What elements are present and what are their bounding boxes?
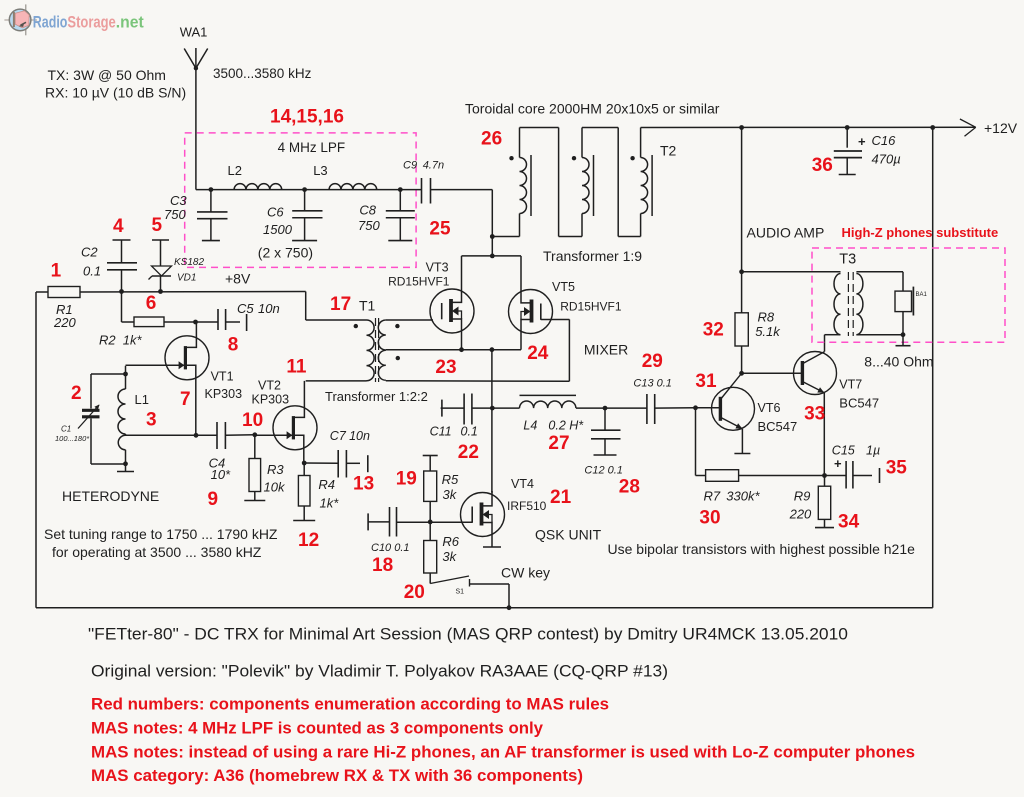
svg-text:5.1k: 5.1k xyxy=(755,324,781,339)
svg-text:+: + xyxy=(834,456,842,471)
svg-text:TX: 3W @ 50 Ohm: TX: 3W @ 50 Ohm xyxy=(48,67,166,83)
svg-text:R6: R6 xyxy=(442,534,459,549)
svg-text:C16: C16 xyxy=(872,133,897,148)
svg-text:WA1: WA1 xyxy=(180,25,208,40)
svg-text:Radio: Radio xyxy=(33,12,68,31)
svg-text:6: 6 xyxy=(146,293,157,314)
svg-text:330k*: 330k* xyxy=(726,489,760,504)
svg-text:IRF510: IRF510 xyxy=(507,499,547,513)
svg-text:12: 12 xyxy=(298,530,319,551)
svg-text:L3: L3 xyxy=(313,163,327,178)
svg-text:VT5: VT5 xyxy=(552,280,575,294)
svg-text:17: 17 xyxy=(330,294,351,315)
svg-text:R2: R2 xyxy=(99,333,116,348)
svg-text:Original version: "Polevik" by: Original version: "Polevik" by Vladimir … xyxy=(91,662,668,681)
svg-text:Transformer 1:9: Transformer 1:9 xyxy=(543,248,642,264)
svg-text:C13 0.1: C13 0.1 xyxy=(633,378,672,390)
svg-text:VT1: VT1 xyxy=(211,370,234,384)
svg-text:1: 1 xyxy=(51,261,62,282)
svg-text:VT4: VT4 xyxy=(511,477,534,491)
svg-text:1k*: 1k* xyxy=(320,496,340,511)
svg-text:R8: R8 xyxy=(758,310,775,325)
svg-text:VT2: VT2 xyxy=(258,379,281,393)
svg-text:R3: R3 xyxy=(267,462,284,477)
svg-text:21: 21 xyxy=(550,487,572,508)
svg-text:29: 29 xyxy=(642,351,663,372)
svg-text:2: 2 xyxy=(71,383,82,404)
svg-text:C9: C9 xyxy=(403,160,417,172)
svg-text:R4: R4 xyxy=(318,477,335,492)
svg-text:C15: C15 xyxy=(832,444,855,458)
svg-text:+12V: +12V xyxy=(984,120,1018,136)
svg-text:220: 220 xyxy=(789,507,812,522)
svg-text:10n: 10n xyxy=(258,301,280,316)
svg-text:Red numbers: components enumer: Red numbers: components enumeration acco… xyxy=(91,695,609,714)
svg-text:MAS category: A36 (homebrew RX: MAS category: A36 (homebrew RX & TX with… xyxy=(91,766,583,785)
svg-text:C3: C3 xyxy=(170,193,187,208)
svg-text:VT7: VT7 xyxy=(839,378,862,392)
svg-text:AUDIO AMP: AUDIO AMP xyxy=(747,225,825,241)
svg-text:10: 10 xyxy=(242,410,263,431)
svg-text:(2 x 750): (2 x 750) xyxy=(258,245,313,261)
svg-text:R9: R9 xyxy=(794,489,811,504)
svg-text:T2: T2 xyxy=(660,143,677,159)
svg-text:C7: C7 xyxy=(330,429,347,443)
svg-text:C1: C1 xyxy=(61,425,71,434)
svg-text:S1: S1 xyxy=(456,589,465,596)
svg-text:High-Z phones substitute: High-Z phones substitute xyxy=(842,225,999,240)
svg-text:.net: .net xyxy=(116,12,144,31)
svg-text:for operating at 3500 ... 3580: for operating at 3500 ... 3580 kHZ xyxy=(52,544,262,560)
svg-text:100...180*: 100...180* xyxy=(55,434,90,443)
svg-text:+: + xyxy=(858,134,866,149)
svg-text:23: 23 xyxy=(435,357,456,378)
svg-text:C6: C6 xyxy=(267,205,284,220)
svg-text:0.2 H*: 0.2 H* xyxy=(548,419,584,433)
svg-text:C8: C8 xyxy=(359,203,376,218)
svg-text:MIXER: MIXER xyxy=(584,342,628,358)
svg-text:24: 24 xyxy=(527,343,549,364)
svg-text:C5: C5 xyxy=(237,301,254,316)
svg-text:HETERODYNE: HETERODYNE xyxy=(62,488,159,504)
svg-text:4: 4 xyxy=(113,216,124,237)
svg-text:4.7n: 4.7n xyxy=(423,160,444,172)
svg-text:KP303: KP303 xyxy=(252,393,290,407)
svg-text:QSK UNIT: QSK UNIT xyxy=(535,527,602,543)
svg-text:22: 22 xyxy=(458,442,479,463)
svg-text:470µ: 470µ xyxy=(872,152,901,167)
svg-text:4 MHz LPF: 4 MHz LPF xyxy=(278,140,346,155)
svg-text:VT3: VT3 xyxy=(426,261,449,275)
svg-text:31: 31 xyxy=(695,371,717,392)
svg-text:1µ: 1µ xyxy=(866,444,880,458)
svg-text:L1: L1 xyxy=(135,392,149,407)
svg-text:3500...3580 kHz: 3500...3580 kHz xyxy=(213,66,312,81)
svg-text:33: 33 xyxy=(804,404,825,425)
svg-text:35: 35 xyxy=(886,458,908,479)
svg-text:VT6: VT6 xyxy=(758,401,781,415)
svg-text:MAS notes: instead of using a: MAS notes: instead of using a rare Hi-Z … xyxy=(91,743,915,762)
svg-text:20: 20 xyxy=(404,582,425,603)
svg-text:28: 28 xyxy=(619,477,640,498)
svg-text:9: 9 xyxy=(208,489,219,510)
svg-text:C10 0.1: C10 0.1 xyxy=(371,542,410,554)
svg-text:26: 26 xyxy=(481,129,502,150)
svg-text:3k: 3k xyxy=(442,549,457,564)
svg-text:13: 13 xyxy=(353,474,374,495)
svg-text:14,15,16: 14,15,16 xyxy=(270,107,344,128)
svg-text:BC547: BC547 xyxy=(758,419,798,434)
svg-text:27: 27 xyxy=(548,433,569,454)
svg-text:Transformer 1:2:2: Transformer 1:2:2 xyxy=(325,389,428,404)
svg-text:3: 3 xyxy=(146,410,157,431)
svg-text:19: 19 xyxy=(396,469,417,490)
svg-text:RX: 10 µV (10 dB S/N): RX: 10 µV (10 dB S/N) xyxy=(45,85,186,101)
svg-text:Storage: Storage xyxy=(67,12,115,31)
svg-text:CW key: CW key xyxy=(501,565,550,581)
svg-text:750: 750 xyxy=(164,207,186,222)
svg-text:KP303: KP303 xyxy=(205,387,243,401)
svg-text:3k: 3k xyxy=(443,487,458,502)
svg-text:30: 30 xyxy=(699,508,720,529)
svg-text:1k*: 1k* xyxy=(123,333,143,348)
svg-text:BA1: BA1 xyxy=(916,292,928,298)
svg-text:"FETter-80" - DC TRX for Minim: "FETter-80" - DC TRX for Minimal Art Ses… xyxy=(88,625,848,644)
svg-text:10n: 10n xyxy=(349,429,370,443)
svg-text:KS182: KS182 xyxy=(174,257,204,268)
svg-text:L2: L2 xyxy=(228,163,242,178)
svg-text:RD15HVF1: RD15HVF1 xyxy=(388,275,450,289)
svg-text:750: 750 xyxy=(358,218,380,233)
svg-text:8: 8 xyxy=(228,335,239,356)
svg-text:C2: C2 xyxy=(81,245,98,260)
svg-text:L4: L4 xyxy=(523,419,537,433)
svg-text:BC547: BC547 xyxy=(839,396,879,411)
svg-text:Set tuning range to 1750 ... 1: Set tuning range to 1750 ... 1790 kHZ xyxy=(44,526,278,542)
svg-text:32: 32 xyxy=(703,320,724,341)
svg-text:T1: T1 xyxy=(359,298,376,314)
svg-text:25: 25 xyxy=(429,219,451,240)
svg-text:T3: T3 xyxy=(839,252,856,268)
svg-text:Use bipolar transistors with h: Use bipolar transistors with highest pos… xyxy=(608,541,916,557)
svg-text:R5: R5 xyxy=(442,472,459,487)
svg-text:0.1: 0.1 xyxy=(461,425,478,439)
svg-text:18: 18 xyxy=(372,555,393,576)
svg-text:C12 0.1: C12 0.1 xyxy=(584,465,623,477)
svg-text:34: 34 xyxy=(838,512,860,533)
svg-text:Toroidal core 2000HM 20x10x5 o: Toroidal core 2000HM 20x10x5 or similar xyxy=(465,101,720,117)
svg-text:8...40 Ohm: 8...40 Ohm xyxy=(864,354,933,370)
svg-text:RD15HVF1: RD15HVF1 xyxy=(560,300,622,314)
svg-text:36: 36 xyxy=(812,155,833,176)
svg-text:11: 11 xyxy=(286,357,307,378)
svg-text:R7: R7 xyxy=(704,489,721,504)
svg-text:1500: 1500 xyxy=(263,222,293,237)
svg-text:0.1: 0.1 xyxy=(83,264,101,279)
svg-text:5: 5 xyxy=(152,215,163,236)
svg-text:C11: C11 xyxy=(430,425,452,439)
svg-text:7: 7 xyxy=(180,389,191,410)
svg-text:VD1: VD1 xyxy=(177,273,196,284)
svg-text:MAS notes: 4 MHz LPF is counte: MAS notes: 4 MHz LPF is counted as 3 com… xyxy=(91,719,544,738)
svg-text:10*: 10* xyxy=(211,467,231,482)
svg-text:10k: 10k xyxy=(264,480,286,495)
svg-text:+8V: +8V xyxy=(225,271,251,287)
svg-text:220: 220 xyxy=(53,315,76,330)
